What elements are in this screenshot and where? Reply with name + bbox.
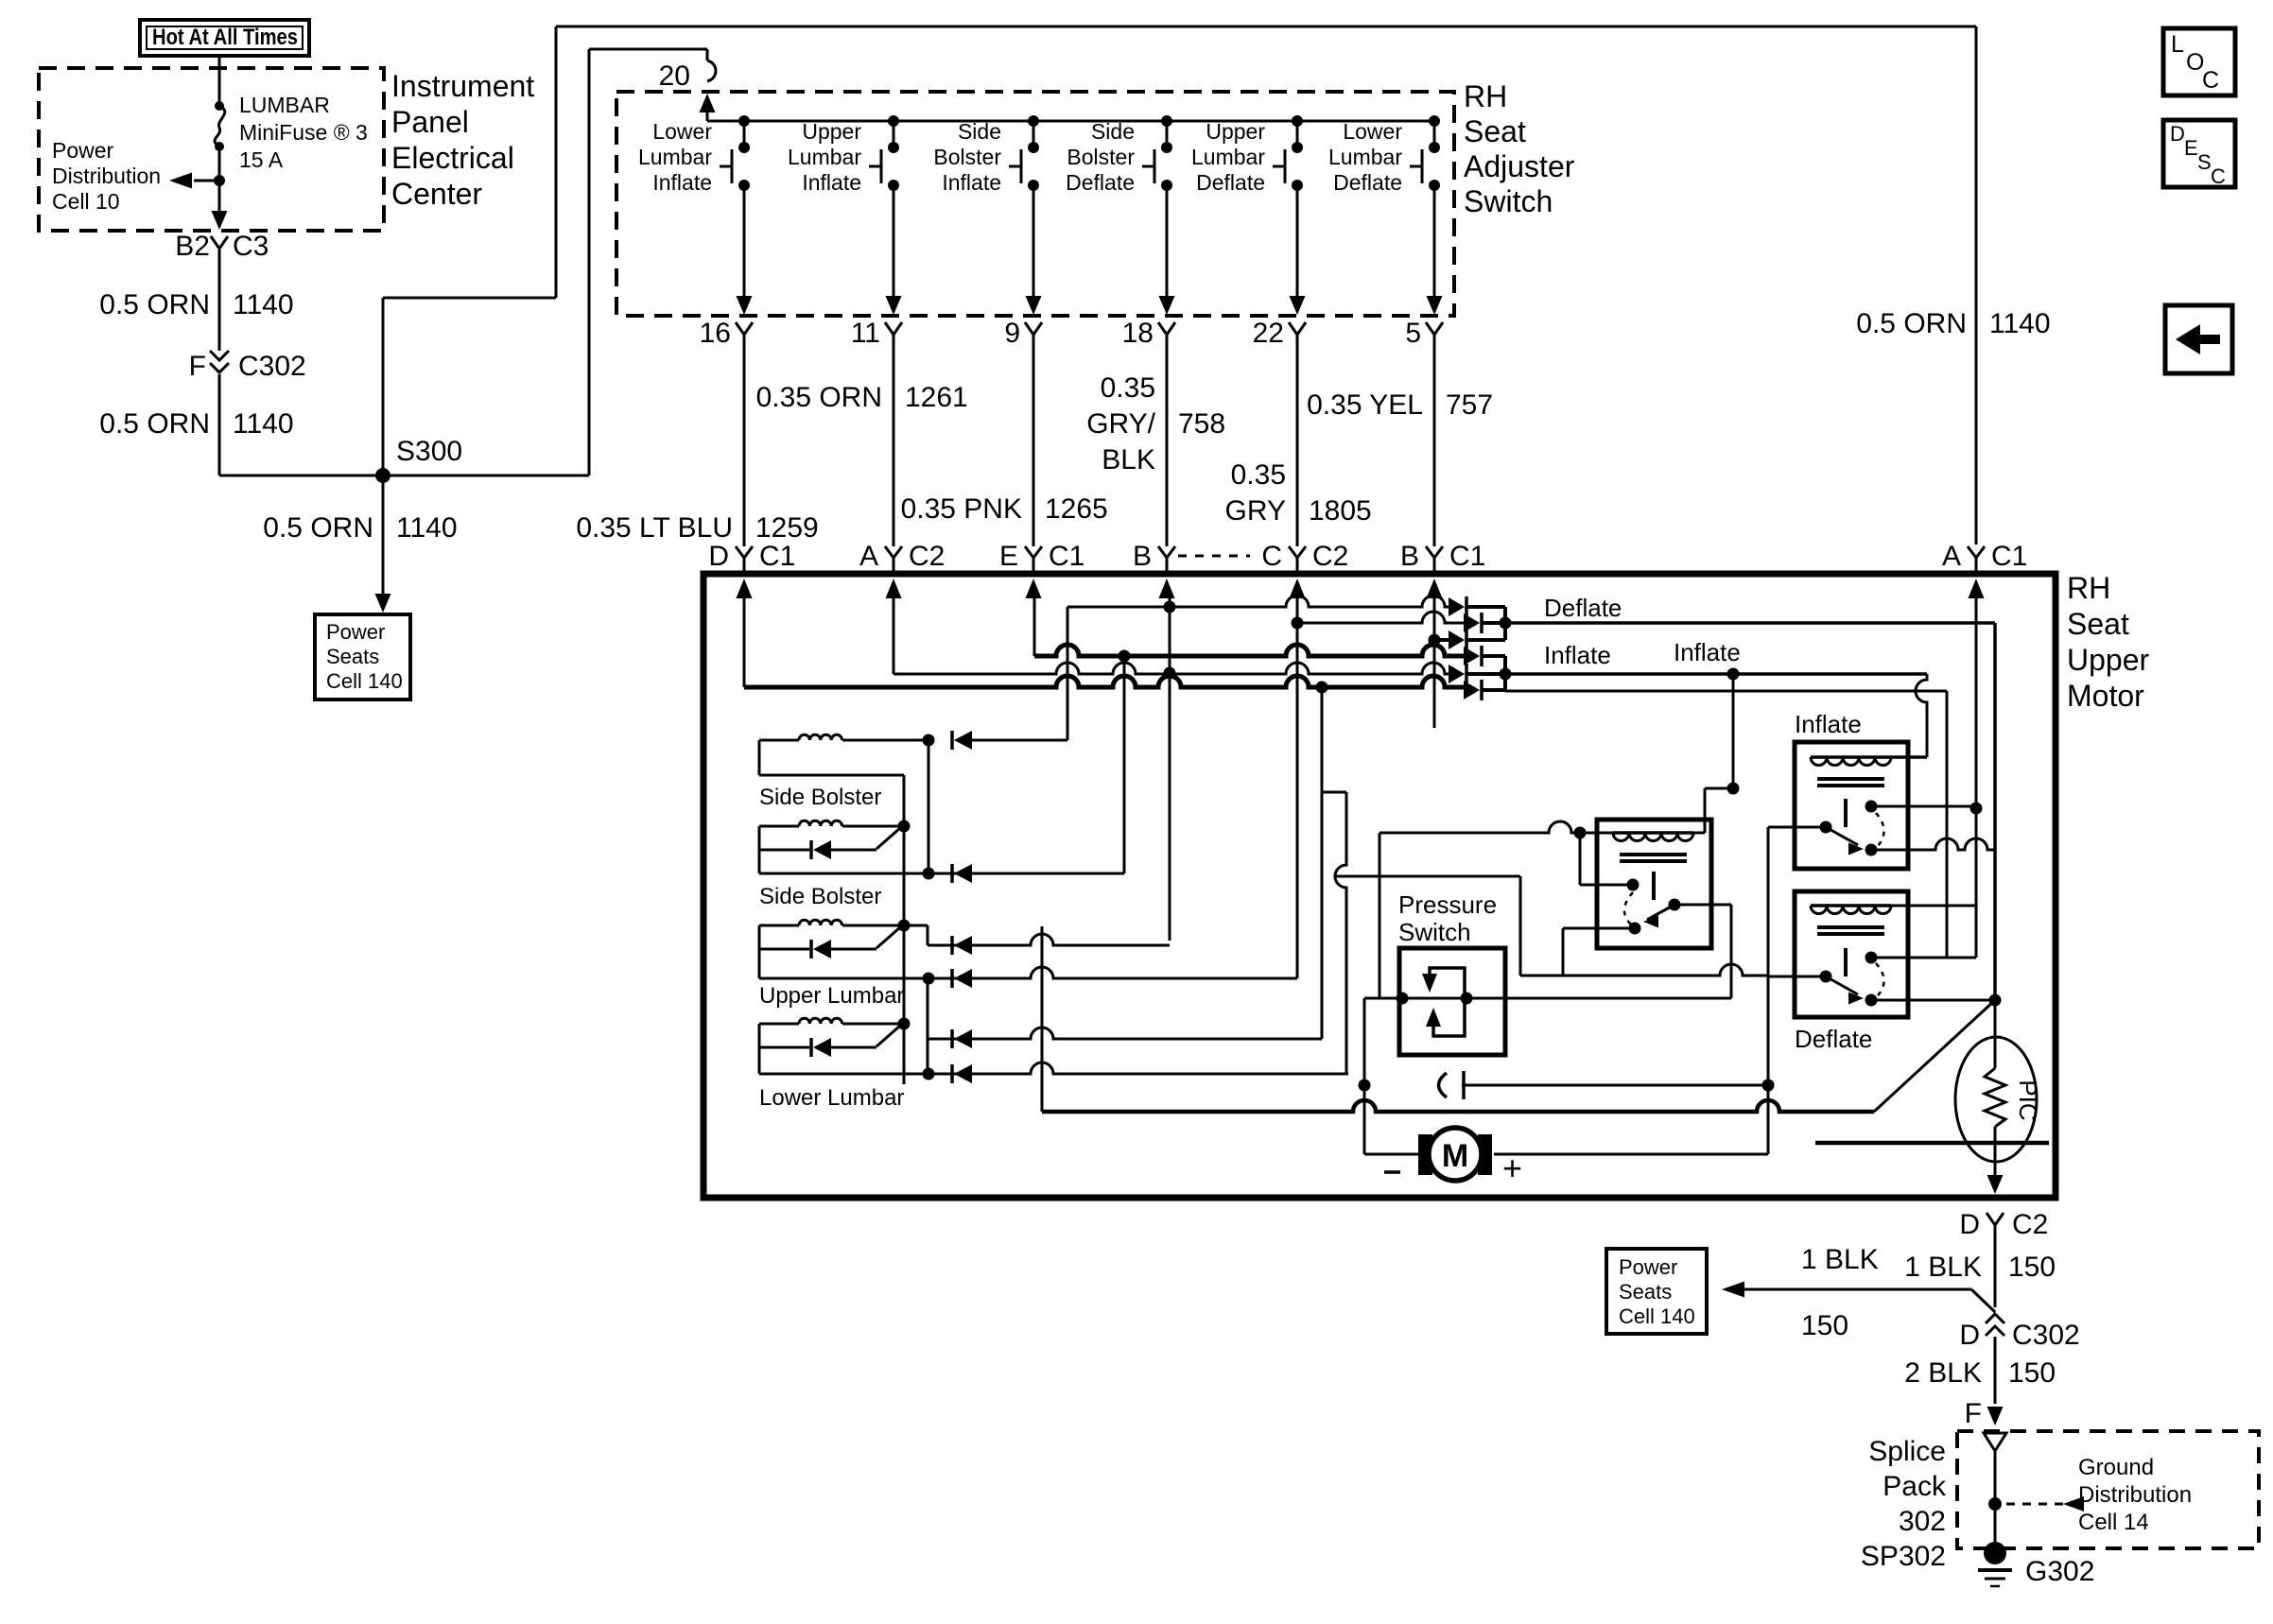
svg-text:C2: C2 [2012,1209,2048,1240]
svg-text:S: S [2197,150,2212,174]
svg-text:Upper: Upper [2067,643,2150,677]
svg-text:C302: C302 [238,351,306,382]
svg-text:1805: 1805 [1309,495,1372,527]
svg-text:Panel: Panel [391,105,469,139]
svg-text:D: D [2170,122,2185,146]
svg-text:0.35: 0.35 [1231,459,1286,491]
svg-text:1265: 1265 [1045,493,1108,525]
svg-text:1259: 1259 [755,512,819,544]
svg-text:302: 302 [1899,1506,1946,1537]
svg-text:C: C [2211,164,2226,188]
svg-text:Upper Lumbar: Upper Lumbar [759,983,904,1009]
svg-text:Power: Power [52,138,114,163]
svg-text:Lumbar: Lumbar [638,145,712,169]
svg-text:F: F [1965,1398,1982,1429]
svg-text:20: 20 [659,60,690,92]
svg-text:C1: C1 [759,541,795,572]
svg-text:Inflate: Inflate [1674,638,1741,666]
svg-text:MiniFuse ® 3: MiniFuse ® 3 [239,120,368,145]
svg-text:LUMBAR: LUMBAR [239,93,330,117]
svg-text:C1: C1 [1449,541,1485,572]
svg-text:RH: RH [2067,571,2110,605]
svg-text:Side Bolster: Side Bolster [759,884,881,909]
svg-text:1140: 1140 [233,289,294,320]
svg-text:A: A [1942,541,1961,572]
svg-text:E: E [999,541,1018,572]
svg-text:Cell 140: Cell 140 [1619,1304,1695,1328]
svg-text:0.35: 0.35 [1101,372,1155,404]
svg-text:Lumbar: Lumbar [1191,145,1265,169]
svg-text:Distribution: Distribution [2078,1482,2192,1508]
svg-text:Side: Side [958,119,1001,144]
svg-text:150: 150 [2008,1357,2056,1389]
svg-text:Cell 14: Cell 14 [2078,1510,2149,1535]
svg-text:Deflate: Deflate [1333,170,1402,195]
svg-text:758: 758 [1178,408,1225,440]
svg-text:Deflate: Deflate [1795,1025,1872,1053]
svg-text:D: D [708,541,729,572]
svg-text:C1: C1 [1991,541,2027,572]
svg-text:S300: S300 [396,436,462,467]
svg-text:G302: G302 [2025,1556,2094,1587]
svg-text:Seats: Seats [326,645,379,668]
svg-text:RH: RH [1464,79,1507,113]
svg-text:Inflate: Inflate [942,170,1001,195]
svg-text:Splice: Splice [1868,1436,1946,1467]
svg-text:Seat: Seat [2067,607,2129,641]
svg-text:1140: 1140 [396,512,458,544]
svg-text:M: M [1442,1138,1468,1174]
svg-text:0.5 ORN: 0.5 ORN [99,408,210,440]
svg-text:D: D [1959,1209,1980,1240]
svg-text:Electrical: Electrical [391,141,514,175]
svg-text:B: B [1400,541,1419,572]
svg-text:757: 757 [1446,389,1493,421]
svg-text:2 BLK: 2 BLK [1904,1357,1982,1389]
svg-text:Power: Power [326,620,385,644]
svg-text:GRY: GRY [1225,495,1286,527]
svg-text:Lower: Lower [1343,119,1402,144]
svg-text:Seat: Seat [1464,114,1526,148]
svg-text:+: + [1502,1149,1522,1187]
svg-text:F: F [189,351,206,382]
svg-text:B2: B2 [175,231,210,262]
svg-text:1140: 1140 [1989,308,2051,339]
svg-text:Cell 10: Cell 10 [52,189,120,214]
svg-text:Inflate: Inflate [802,170,861,195]
svg-text:15 A: 15 A [239,147,284,172]
svg-text:11: 11 [851,318,880,349]
svg-text:C2: C2 [1312,541,1348,572]
svg-text:L: L [2171,31,2184,58]
svg-text:Bolster: Bolster [933,145,1001,169]
svg-text:C2: C2 [909,541,945,572]
svg-text:Power: Power [1619,1255,1677,1279]
svg-text:150: 150 [2008,1252,2056,1283]
svg-text:GRY/: GRY/ [1086,408,1155,440]
svg-text:Seats: Seats [1619,1280,1672,1304]
svg-text:C3: C3 [233,231,269,262]
svg-text:Deflate: Deflate [1544,594,1622,622]
svg-text:D: D [1959,1320,1980,1351]
svg-text:Pack: Pack [1883,1471,1947,1502]
svg-text:Lumbar: Lumbar [788,145,861,169]
svg-text:Lumbar: Lumbar [1328,145,1402,169]
svg-text:0.5 ORN: 0.5 ORN [1856,308,1967,339]
svg-text:18: 18 [1122,318,1154,349]
svg-text:Motor: Motor [2067,679,2144,713]
svg-text:Bolster: Bolster [1067,145,1135,169]
svg-text:Lower Lumbar: Lower Lumbar [759,1085,904,1111]
svg-text:Center: Center [391,177,482,211]
svg-text:0.35 LT BLU: 0.35 LT BLU [576,512,733,544]
svg-text:Deflate: Deflate [1066,170,1135,195]
svg-text:5: 5 [1405,318,1421,349]
svg-text:1 BLK: 1 BLK [1801,1244,1879,1275]
svg-text:Inflate: Inflate [652,170,712,195]
svg-text:Side Bolster: Side Bolster [759,785,881,810]
svg-text:A: A [859,541,878,572]
svg-text:1261: 1261 [905,382,968,413]
svg-text:Lower: Lower [652,119,712,144]
svg-text:Cell 140: Cell 140 [326,669,403,693]
svg-text:SP302: SP302 [1861,1541,1946,1572]
svg-text:Hot At All Times: Hot At All Times [152,25,298,50]
svg-text:E: E [2184,136,2198,160]
svg-text:B: B [1133,541,1152,572]
svg-text:C: C [1261,541,1282,572]
svg-text:Deflate: Deflate [1196,170,1265,195]
svg-text:C302: C302 [2012,1320,2080,1351]
svg-text:Side: Side [1091,119,1135,144]
svg-text:C: C [2202,67,2219,94]
svg-text:Distribution: Distribution [52,164,161,188]
svg-text:PIC: PIC [2014,1080,2042,1120]
svg-text:Inflate: Inflate [1795,710,1862,738]
svg-text:0.5 ORN: 0.5 ORN [263,512,373,544]
svg-text:Adjuster: Adjuster [1464,149,1575,183]
svg-text:0.5 ORN: 0.5 ORN [99,289,210,320]
svg-text:0.35 YEL: 0.35 YEL [1307,389,1423,421]
svg-text:Pressure: Pressure [1398,890,1497,919]
svg-text:150: 150 [1801,1310,1848,1341]
svg-text:0.35 PNK: 0.35 PNK [901,493,1022,525]
svg-text:BLK: BLK [1102,444,1155,475]
svg-text:9: 9 [1004,318,1020,349]
svg-text:0.35 ORN: 0.35 ORN [756,382,882,413]
svg-text:Upper: Upper [1206,119,1265,144]
svg-text:16: 16 [700,318,731,349]
svg-text:1140: 1140 [233,408,294,440]
svg-text:1 BLK: 1 BLK [1904,1252,1982,1283]
svg-text:Upper: Upper [802,119,861,144]
svg-text:Switch: Switch [1464,184,1553,218]
svg-text:Switch: Switch [1398,918,1471,946]
svg-text:22: 22 [1253,318,1284,349]
svg-text:Ground: Ground [2078,1455,2154,1480]
svg-text:C1: C1 [1049,541,1084,572]
svg-text:Instrument: Instrument [391,69,534,103]
svg-text:Inflate: Inflate [1544,641,1611,669]
